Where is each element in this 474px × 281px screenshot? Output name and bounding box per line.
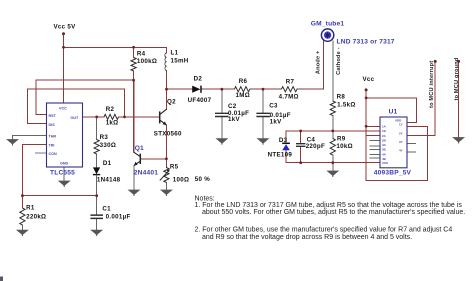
svg-text:2N4401: 2N4401: [134, 170, 158, 177]
svg-text:R6: R6: [239, 78, 248, 85]
svg-text:TRI: TRI: [49, 143, 55, 147]
svg-text:to MCU interrupt: to MCU interrupt: [429, 61, 435, 108]
svg-text:0.001µF: 0.001µF: [106, 214, 131, 221]
svg-text:NTE109: NTE109: [268, 152, 293, 159]
svg-text:LND 7313 or 7317: LND 7313 or 7317: [337, 39, 395, 46]
svg-text:VSS: VSS: [382, 161, 388, 165]
svg-text:R5: R5: [170, 164, 179, 171]
svg-text:1Y: 1Y: [399, 123, 403, 127]
svg-text:U1: U1: [389, 109, 398, 116]
svg-text:Vcc 5V: Vcc 5V: [54, 24, 77, 31]
svg-text:50 %: 50 %: [195, 176, 211, 183]
svg-text:1kV: 1kV: [228, 116, 240, 123]
svg-text:100Ω: 100Ω: [173, 177, 190, 184]
svg-text:R2: R2: [106, 106, 115, 113]
svg-text:Anode +: Anode +: [316, 50, 322, 74]
svg-text:R3: R3: [100, 134, 109, 141]
svg-text:220pF: 220pF: [306, 143, 325, 150]
svg-text:1N4148: 1N4148: [97, 176, 121, 183]
svg-text:L1: L1: [171, 50, 179, 57]
svg-text:Q1: Q1: [135, 145, 144, 152]
svg-text:C1: C1: [102, 205, 111, 212]
svg-text:CON: CON: [49, 152, 58, 156]
svg-text:THR: THR: [49, 134, 57, 138]
svg-text:1kΩ: 1kΩ: [106, 119, 119, 126]
svg-text:330Ω: 330Ω: [100, 142, 117, 149]
svg-text:and R9 so that the voltage dro: and R9 so that the voltage drop across R…: [202, 234, 412, 241]
svg-text:DIS: DIS: [49, 123, 56, 127]
svg-text:C2: C2: [228, 103, 237, 110]
svg-text:GM_tube1: GM_tube1: [311, 20, 345, 27]
svg-text:STX0560: STX0560: [154, 131, 182, 138]
svg-text:15mH: 15mH: [171, 57, 189, 64]
svg-text:OUT: OUT: [71, 116, 80, 120]
svg-text:UF4007: UF4007: [188, 97, 212, 104]
svg-text:220kΩ: 220kΩ: [26, 213, 46, 220]
svg-text:C3: C3: [269, 103, 278, 110]
svg-text:R9: R9: [337, 135, 346, 142]
svg-text:D3: D3: [279, 137, 288, 144]
svg-text:4.7MΩ: 4.7MΩ: [279, 93, 299, 100]
svg-text:4Y: 4Y: [399, 149, 403, 153]
svg-text:D2: D2: [194, 76, 203, 83]
svg-text:1MΩ: 1MΩ: [236, 92, 250, 99]
svg-text:Q2: Q2: [167, 98, 176, 105]
svg-text:R1: R1: [26, 205, 35, 212]
svg-text:R7: R7: [286, 79, 295, 86]
svg-text:1. For the LND 7313 or 7317 GM: 1. For the LND 7313 or 7317 GM tube, adj…: [195, 202, 463, 209]
svg-text:R4: R4: [137, 50, 146, 57]
svg-text:1kV: 1kV: [270, 118, 282, 125]
svg-text:GND: GND: [60, 161, 69, 165]
svg-text:Cathode -: Cathode -: [336, 47, 342, 75]
svg-text:10kΩ: 10kΩ: [336, 143, 353, 150]
svg-text:2. For other GM tubes, use the: 2. For other GM tubes, use the manufactu…: [195, 227, 453, 234]
svg-text:Vcc: Vcc: [363, 76, 375, 83]
svg-text:1.5kΩ: 1.5kΩ: [337, 101, 356, 108]
svg-text:100kΩ: 100kΩ: [137, 58, 157, 65]
svg-text:to MCU ground: to MCU ground: [454, 57, 460, 100]
svg-text:R8: R8: [337, 93, 346, 100]
svg-text:2Y: 2Y: [399, 132, 403, 136]
svg-text:4093BP_5V: 4093BP_5V: [374, 169, 412, 176]
svg-text:VCC: VCC: [59, 106, 67, 110]
svg-text:3Y: 3Y: [399, 140, 403, 144]
svg-text:TLC555: TLC555: [50, 170, 75, 177]
svg-text:D1: D1: [103, 160, 112, 167]
svg-text:RST: RST: [49, 114, 57, 118]
svg-text:about 550 volts. For other GM: about 550 volts. For other GM tubes, adj…: [202, 209, 465, 216]
